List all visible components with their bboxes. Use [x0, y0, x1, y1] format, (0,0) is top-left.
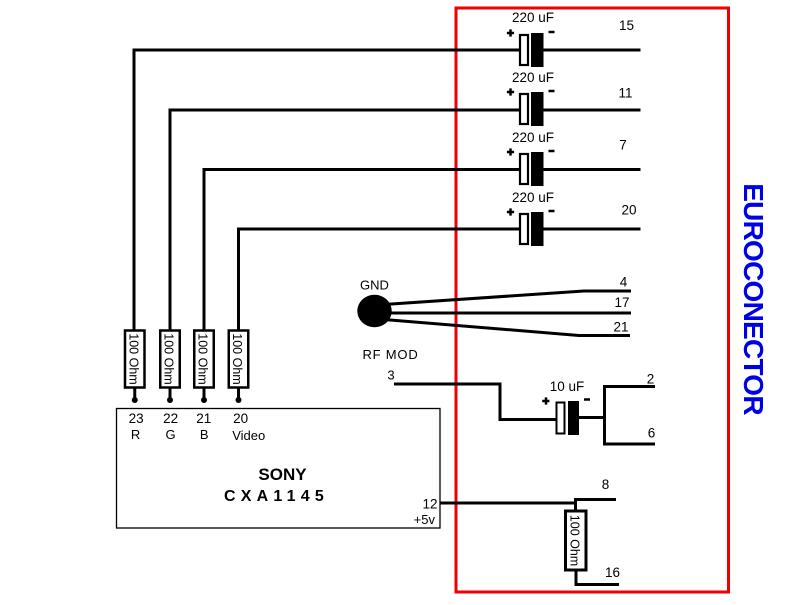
polarity mark + — [507, 32, 514, 35]
wire resistor R1 to pin 23 — [133, 388, 136, 399]
junction dot pin 22 — [167, 397, 173, 403]
junction dot pin 23 — [132, 397, 138, 403]
capacitor C3 220uF — [507, 130, 555, 186]
wire to pin 6 — [603, 443, 655, 446]
wire G: resistor R2 top to capacitor C2 — [170, 110, 519, 331]
wire to pin 8 — [575, 498, 617, 501]
resistor body — [566, 511, 587, 570]
wire capacitor C2 to pin 11 — [543, 109, 641, 112]
svg-text:17: 17 — [614, 295, 629, 310]
svg-text:220 uF: 220 uF — [512, 70, 554, 85]
resistor R5 100 Ohm — [566, 511, 587, 570]
wire GND to pin 21 — [384, 320, 630, 336]
svg-text:6: 6 — [648, 426, 656, 441]
svg-text:CXA1145: CXA1145 — [224, 488, 329, 505]
wire capacitor C1 to pin 15 — [543, 49, 641, 52]
wire resistor R3 to pin 21 — [203, 388, 206, 399]
svg-text:12: 12 — [422, 497, 437, 512]
svg-text:220 uF: 220 uF — [512, 130, 554, 145]
polarity mark + — [507, 151, 514, 154]
svg-text:GND: GND — [360, 278, 389, 293]
negative plate — [568, 401, 579, 435]
resistor body — [160, 331, 180, 388]
negative plate — [531, 212, 544, 246]
svg-text:22: 22 — [163, 411, 178, 426]
svg-text:2: 2 — [647, 372, 655, 387]
wire GND to pin 17 — [388, 312, 631, 315]
positive plate — [520, 94, 528, 124]
wire Video: resistor R4 top to capacitor C4 — [239, 229, 520, 331]
polarity mark - — [549, 150, 555, 153]
svg-text:21: 21 — [613, 320, 628, 335]
svg-text:21: 21 — [196, 411, 211, 426]
svg-text:G: G — [166, 427, 176, 442]
wire jog up to pin 8 branch — [574, 498, 577, 511]
svg-text:+5v: +5v — [414, 512, 436, 527]
svg-text:16: 16 — [605, 565, 620, 580]
negative plate — [531, 33, 544, 67]
wire capacitor C4 to pin 20 — [543, 228, 641, 231]
resistor body — [194, 331, 214, 388]
svg-text:23: 23 — [129, 411, 144, 426]
euroconector outline (SCART connector box) — [456, 8, 729, 592]
wire pin 3 to capacitor C5 — [394, 384, 556, 420]
node GND (solder blob) — [357, 295, 391, 327]
IC U1 SONY CXA1145 box — [117, 409, 441, 529]
wire resistor R5 to pin 16 — [576, 570, 619, 585]
capacitor C4 220uF — [507, 190, 555, 246]
polarity mark + — [542, 400, 549, 403]
resistor body — [229, 331, 249, 388]
svg-text:100 Ohm: 100 Ohm — [162, 333, 176, 384]
junction dot pin 20 — [236, 397, 242, 403]
svg-text:10 uF: 10 uF — [550, 379, 585, 394]
svg-text:RF MOD: RF MOD — [362, 347, 418, 362]
svg-text:15: 15 — [619, 18, 634, 33]
svg-text:8: 8 — [602, 477, 610, 492]
svg-text:220 uF: 220 uF — [512, 190, 554, 205]
capacitor C5 10uF — [542, 379, 590, 435]
svg-text:100 Ohm: 100 Ohm — [230, 333, 244, 384]
polarity mark + — [507, 91, 514, 94]
svg-text:3: 3 — [387, 368, 394, 383]
negative plate — [531, 152, 544, 186]
resistor R2 100 Ohm — [160, 331, 180, 388]
wire R: resistor R1 top to capacitor C1 — [134, 50, 519, 331]
positive plate — [557, 403, 565, 434]
svg-text:100 Ohm: 100 Ohm — [126, 333, 140, 384]
resistor R1 100 Ohm — [125, 331, 145, 388]
svg-text:B: B — [200, 427, 209, 442]
polarity mark - — [549, 90, 555, 93]
svg-text:220 uF: 220 uF — [512, 10, 554, 25]
junction dot pin 21 — [201, 397, 207, 403]
polarity mark + — [507, 211, 514, 214]
negative plate — [531, 92, 544, 126]
wire B: resistor R3 top to capacitor C3 — [204, 170, 519, 332]
polarity mark - — [549, 210, 555, 213]
wire capacitor C3 to pin 7 — [543, 168, 641, 171]
resistor body — [125, 331, 145, 388]
svg-text:4: 4 — [620, 275, 628, 290]
capacitor C1 220uF — [507, 10, 555, 67]
wire resistor R2 to pin 22 — [169, 388, 172, 399]
wire resistor R4 to pin 20 — [237, 388, 240, 399]
svg-text:EUROCONECTOR: EUROCONECTOR — [738, 183, 769, 415]
resistor R4 100 Ohm — [229, 331, 249, 388]
svg-text:SONY: SONY — [258, 465, 307, 484]
svg-text:20: 20 — [233, 411, 248, 426]
polarity mark - — [549, 31, 555, 34]
resistor R3 100 Ohm — [194, 331, 214, 388]
svg-text:R: R — [131, 427, 140, 442]
wire GND to pin 4 — [384, 291, 631, 305]
capacitor C2 220uF — [507, 70, 555, 126]
svg-text:11: 11 — [618, 86, 632, 101]
wire junction vertical pins 2-6 — [603, 385, 606, 446]
positive plate — [520, 154, 528, 184]
wire capacitor C5 to junction — [579, 416, 606, 419]
svg-text:100 Ohm: 100 Ohm — [568, 515, 582, 566]
positive plate — [520, 214, 528, 244]
wire to pin 2 — [603, 385, 655, 388]
svg-text:20: 20 — [621, 203, 636, 218]
positive plate — [520, 35, 528, 65]
polarity mark - — [584, 398, 590, 401]
svg-text:7: 7 — [619, 138, 627, 153]
svg-text:100 Ohm: 100 Ohm — [196, 333, 210, 384]
svg-text:Video: Video — [232, 428, 265, 443]
wire pin 12 +5v — [440, 502, 576, 505]
